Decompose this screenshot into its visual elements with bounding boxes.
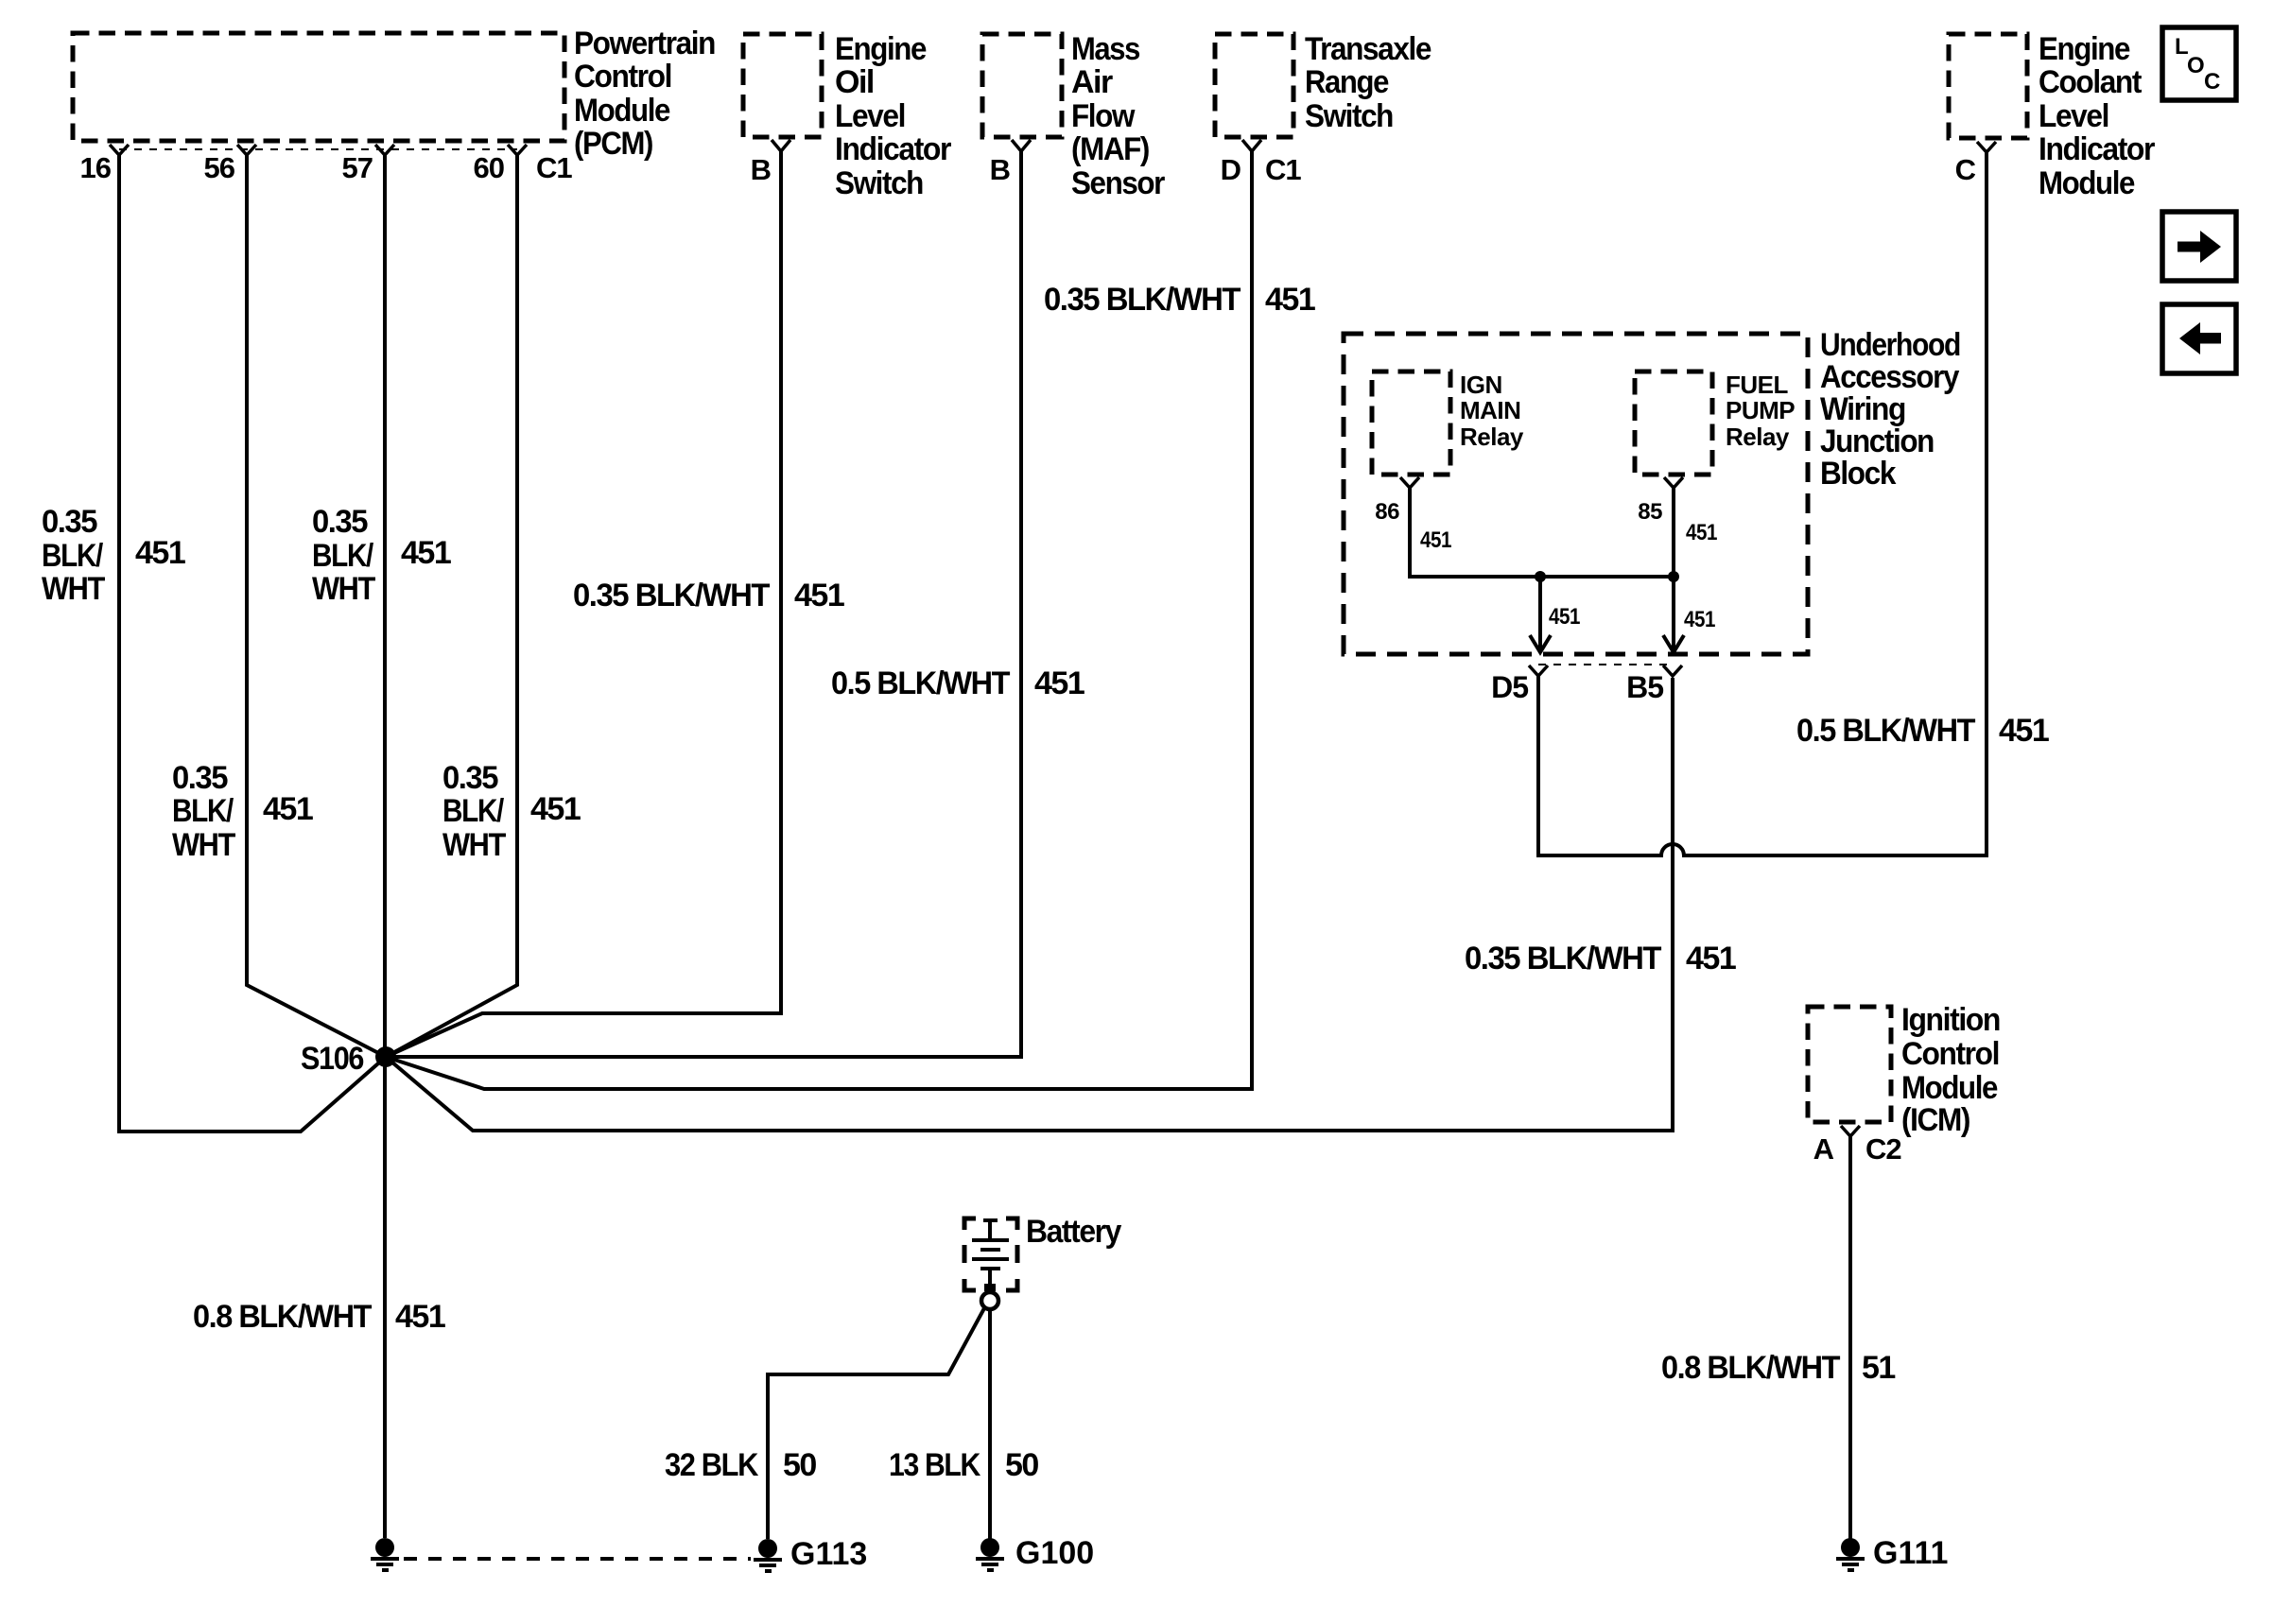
svg-text:0.8 BLK/WHT: 0.8 BLK/WHT bbox=[1661, 1350, 1841, 1386]
svg-text:0.35 BLK/WHT: 0.35 BLK/WHT bbox=[573, 578, 771, 613]
svg-text:50: 50 bbox=[1005, 1447, 1038, 1483]
svg-text:451: 451 bbox=[1999, 713, 2049, 749]
svg-text:57: 57 bbox=[342, 151, 373, 184]
svg-text:Level: Level bbox=[2039, 98, 2108, 134]
svg-text:IGN: IGN bbox=[1460, 371, 1502, 399]
svg-text:451: 451 bbox=[1420, 527, 1451, 553]
svg-text:85: 85 bbox=[1638, 499, 1662, 525]
svg-text:451: 451 bbox=[530, 791, 581, 827]
svg-text:86: 86 bbox=[1375, 499, 1399, 525]
svg-text:Relay: Relay bbox=[1460, 423, 1524, 451]
svg-text:451: 451 bbox=[794, 578, 844, 613]
svg-text:WHT: WHT bbox=[312, 571, 376, 607]
svg-text:BLK/: BLK/ bbox=[172, 793, 234, 829]
svg-text:0.35: 0.35 bbox=[312, 504, 368, 540]
svg-text:BLK/: BLK/ bbox=[312, 538, 374, 574]
svg-text:451: 451 bbox=[1686, 520, 1717, 545]
svg-text:451: 451 bbox=[263, 791, 313, 827]
svg-text:Oil: Oil bbox=[835, 64, 874, 100]
svg-text:(ICM): (ICM) bbox=[1901, 1102, 1969, 1138]
svg-text:Level: Level bbox=[835, 98, 905, 134]
svg-text:Indicator: Indicator bbox=[835, 131, 951, 167]
svg-text:16: 16 bbox=[80, 151, 112, 184]
svg-text:Engine: Engine bbox=[835, 31, 927, 67]
svg-text:Relay: Relay bbox=[1726, 423, 1790, 451]
svg-text:50: 50 bbox=[783, 1447, 816, 1483]
svg-text:0.35 BLK/WHT: 0.35 BLK/WHT bbox=[1044, 282, 1241, 318]
svg-text:60: 60 bbox=[474, 151, 504, 184]
svg-text:C1: C1 bbox=[536, 151, 572, 184]
svg-text:Underhood: Underhood bbox=[1820, 327, 1960, 363]
svg-text:Engine: Engine bbox=[2039, 31, 2130, 67]
svg-text:PUMP: PUMP bbox=[1726, 396, 1795, 424]
svg-text:Powertrain: Powertrain bbox=[574, 26, 715, 61]
svg-text:S106: S106 bbox=[301, 1041, 364, 1077]
svg-text:BLK/: BLK/ bbox=[442, 793, 505, 829]
svg-text:B: B bbox=[990, 153, 1010, 186]
svg-text:451: 451 bbox=[395, 1299, 445, 1335]
svg-text:451: 451 bbox=[1684, 607, 1715, 632]
svg-text:C1: C1 bbox=[1265, 153, 1301, 186]
svg-text:0.35: 0.35 bbox=[172, 760, 228, 796]
svg-text:(PCM): (PCM) bbox=[574, 126, 652, 162]
svg-text:Ignition: Ignition bbox=[1901, 1002, 2000, 1038]
svg-text:Module: Module bbox=[1901, 1070, 1998, 1106]
svg-text:Switch: Switch bbox=[1305, 98, 1393, 134]
svg-text:Flow: Flow bbox=[1071, 98, 1136, 134]
svg-text:D5: D5 bbox=[1491, 670, 1528, 704]
svg-text:Battery: Battery bbox=[1026, 1214, 1121, 1250]
svg-text:Air: Air bbox=[1071, 64, 1113, 100]
svg-text:0.8 BLK/WHT: 0.8 BLK/WHT bbox=[193, 1299, 373, 1335]
svg-text:B5: B5 bbox=[1626, 670, 1663, 704]
svg-text:451: 451 bbox=[1549, 604, 1580, 630]
svg-text:A: A bbox=[1813, 1132, 1834, 1166]
svg-text:Coolant: Coolant bbox=[2039, 64, 2142, 100]
svg-text:Wiring: Wiring bbox=[1820, 391, 1905, 427]
svg-text:G100: G100 bbox=[1015, 1535, 1094, 1571]
svg-text:Accessory: Accessory bbox=[1820, 359, 1959, 395]
svg-text:451: 451 bbox=[135, 535, 185, 571]
svg-text:C2: C2 bbox=[1865, 1132, 1901, 1166]
svg-text:451: 451 bbox=[1686, 941, 1736, 976]
svg-text:BLK/: BLK/ bbox=[42, 538, 104, 574]
svg-text:Control: Control bbox=[574, 59, 671, 95]
svg-text:56: 56 bbox=[204, 151, 235, 184]
svg-text:0.35: 0.35 bbox=[42, 504, 97, 540]
svg-text:Module: Module bbox=[574, 93, 670, 129]
svg-text:0.5 BLK/WHT: 0.5 BLK/WHT bbox=[831, 665, 1011, 701]
svg-text:13 BLK: 13 BLK bbox=[889, 1447, 981, 1483]
svg-text:Sensor: Sensor bbox=[1071, 165, 1165, 201]
svg-text:0.35 BLK/WHT: 0.35 BLK/WHT bbox=[1465, 941, 1662, 976]
svg-text:Indicator: Indicator bbox=[2039, 131, 2155, 167]
svg-text:Block: Block bbox=[1820, 456, 1896, 492]
svg-text:Transaxle: Transaxle bbox=[1305, 31, 1431, 67]
svg-text:32 BLK: 32 BLK bbox=[665, 1447, 759, 1483]
svg-text:FUEL: FUEL bbox=[1726, 371, 1789, 399]
svg-text:451: 451 bbox=[1265, 282, 1315, 318]
svg-text:Mass: Mass bbox=[1071, 31, 1140, 67]
svg-text:G113: G113 bbox=[790, 1536, 867, 1572]
svg-text:C: C bbox=[2204, 69, 2220, 95]
svg-text:D: D bbox=[1221, 153, 1241, 186]
svg-text:Module: Module bbox=[2039, 165, 2135, 201]
svg-text:G111: G111 bbox=[1873, 1535, 1948, 1571]
svg-text:Range: Range bbox=[1305, 64, 1389, 100]
svg-text:WHT: WHT bbox=[42, 571, 106, 607]
svg-text:O: O bbox=[2187, 53, 2204, 78]
svg-text:Switch: Switch bbox=[835, 165, 923, 201]
svg-text:451: 451 bbox=[401, 535, 451, 571]
svg-text:Junction: Junction bbox=[1820, 423, 1934, 459]
svg-text:0.35: 0.35 bbox=[442, 760, 498, 796]
svg-text:B: B bbox=[751, 153, 771, 186]
svg-text:MAIN: MAIN bbox=[1460, 396, 1520, 424]
svg-text:0.5 BLK/WHT: 0.5 BLK/WHT bbox=[1796, 713, 1976, 749]
svg-text:WHT: WHT bbox=[172, 827, 236, 863]
svg-text:Control: Control bbox=[1901, 1036, 1999, 1072]
svg-text:(MAF): (MAF) bbox=[1071, 131, 1149, 167]
svg-text:WHT: WHT bbox=[442, 827, 507, 863]
svg-text:51: 51 bbox=[1862, 1350, 1895, 1386]
svg-text:C: C bbox=[1955, 153, 1976, 186]
svg-text:451: 451 bbox=[1034, 665, 1084, 701]
